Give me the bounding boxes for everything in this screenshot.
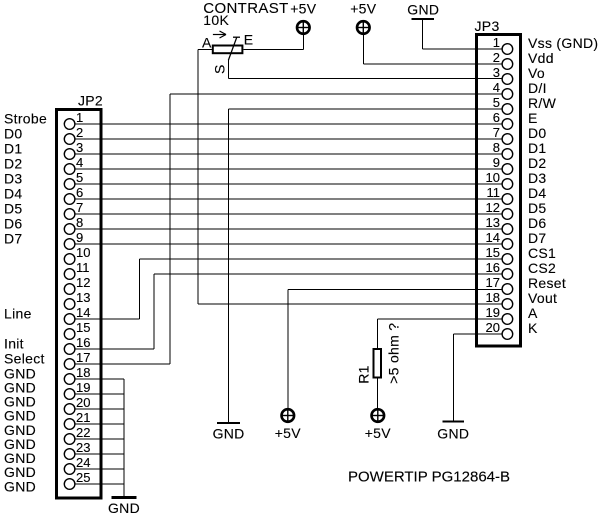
svg-text:15: 15 xyxy=(486,245,500,260)
svg-text:CS2: CS2 xyxy=(528,260,556,276)
svg-text:A: A xyxy=(528,305,538,321)
svg-text:24: 24 xyxy=(76,455,90,470)
wire R/W ground drop xyxy=(228,109,230,422)
wire D5 JP2 pin7 to JP3 pin12 xyxy=(75,213,501,215)
JP3 pin 17 circle xyxy=(502,284,513,295)
wire A to JP3 pin19 xyxy=(378,318,502,320)
svg-text:Init: Init xyxy=(4,336,24,352)
svg-text:GND: GND xyxy=(407,2,439,18)
JP2 pin 9 circle xyxy=(64,239,75,250)
svg-text:Reset: Reset xyxy=(528,275,566,291)
wire GND stub JP2 pin25 xyxy=(75,483,124,485)
wire R1 bottom lead xyxy=(377,379,379,410)
+5V symbol top 2 (Vdd) xyxy=(357,21,370,34)
wire pot E terminal to +5V xyxy=(243,48,303,50)
JP3 pin 2 circle xyxy=(502,59,513,70)
JP2 pin 14 circle xyxy=(64,314,75,325)
svg-text:1: 1 xyxy=(76,110,83,125)
svg-text:23: 23 xyxy=(76,440,90,455)
wire GND stub JP2 pin24 xyxy=(75,468,124,470)
JP2 pin 24 circle xyxy=(64,464,75,475)
wire R1 top lead xyxy=(377,319,379,348)
svg-text:2: 2 xyxy=(76,125,83,140)
svg-text:25: 25 xyxy=(76,470,90,485)
svg-text:JP3: JP3 xyxy=(475,18,500,34)
JP3 pin 8 circle xyxy=(502,149,513,160)
JP3 pin 6 circle xyxy=(502,119,513,130)
svg-text:D6: D6 xyxy=(528,215,547,231)
wire Init stub from JP2 pin16 xyxy=(75,348,154,350)
svg-text:20: 20 xyxy=(486,320,500,335)
JP2 pin 13 circle xyxy=(64,299,75,310)
svg-text:17: 17 xyxy=(486,275,500,290)
wire D6 JP2 pin8 to JP3 pin13 xyxy=(75,228,501,230)
wire D/I to JP3 pin4 xyxy=(170,93,502,95)
svg-text:21: 21 xyxy=(76,410,90,425)
svg-text:+5V: +5V xyxy=(275,425,302,441)
svg-text:22: 22 xyxy=(76,425,90,440)
wire JP2 ground bus down to GND symbol xyxy=(123,379,125,498)
JP2 pin 20 circle xyxy=(64,404,75,415)
wire GND stub JP2 pin18 xyxy=(75,378,124,380)
JP2 pin 12 circle xyxy=(64,284,75,295)
svg-text:+5V: +5V xyxy=(365,425,392,441)
GND symbol bottom left (R/W) xyxy=(217,422,240,424)
JP3 pin 15 circle xyxy=(502,254,513,265)
JP2 pin 8 circle xyxy=(64,224,75,235)
svg-text:Line: Line xyxy=(4,306,32,322)
svg-text:D2: D2 xyxy=(528,155,547,171)
svg-text:14: 14 xyxy=(486,230,500,245)
JP2 pin 18 circle xyxy=(64,374,75,385)
wire R/W to JP3 pin5 xyxy=(229,108,502,110)
wire pot A terminal stub xyxy=(198,48,212,50)
wire GND stub JP2 pin23 xyxy=(75,453,124,455)
svg-text:6: 6 xyxy=(493,110,500,125)
svg-text:15: 15 xyxy=(76,320,90,335)
wire Reset to JP3 pin17 xyxy=(288,289,502,291)
svg-text:4: 4 xyxy=(493,80,500,95)
svg-text:S: S xyxy=(211,64,227,74)
svg-text:Vdd: Vdd xyxy=(528,50,554,66)
JP3 pin 5 circle xyxy=(502,104,513,115)
wire +5V top-2 drop xyxy=(362,34,364,64)
GND symbol bottom right (K) xyxy=(443,420,465,422)
svg-text:R1: R1 xyxy=(355,365,371,384)
svg-text:D1: D1 xyxy=(4,141,23,157)
JP2 pin 2 circle xyxy=(64,134,75,145)
svg-text:19: 19 xyxy=(486,305,500,320)
JP3 pin 18 circle xyxy=(502,299,513,310)
JP2 pin 5 circle xyxy=(64,179,75,190)
svg-text:D3: D3 xyxy=(4,171,23,187)
JP3 pin 3 circle xyxy=(502,74,513,85)
svg-text:POWERTIP PG12864-B: POWERTIP PG12864-B xyxy=(348,469,510,486)
svg-text:3: 3 xyxy=(76,140,83,155)
wire CS1 to JP3 pin15 xyxy=(140,258,502,260)
JP3 pin 7 circle xyxy=(502,134,513,145)
wire Line riser to CS1 level xyxy=(139,259,141,319)
svg-text:7: 7 xyxy=(76,200,83,215)
wire K drop to GND xyxy=(452,334,454,422)
svg-text:3: 3 xyxy=(493,65,500,80)
JP2 pin 17 circle xyxy=(64,359,75,370)
wire D2 JP2 pin4 to JP3 pin9 xyxy=(75,168,501,170)
svg-text:D0: D0 xyxy=(4,126,23,142)
svg-text:D5: D5 xyxy=(4,201,23,217)
svg-text:JP2: JP2 xyxy=(78,93,103,109)
JP2 pin 3 circle xyxy=(64,149,75,160)
JP2 pin 1 circle xyxy=(64,119,75,130)
JP3 pin 12 circle xyxy=(502,209,513,220)
wire Vout to JP3 pin18 xyxy=(198,303,502,305)
svg-text:CS1: CS1 xyxy=(528,245,556,261)
svg-text:R/W: R/W xyxy=(528,95,557,111)
svg-text:D0: D0 xyxy=(528,125,547,141)
svg-text:16: 16 xyxy=(76,335,90,350)
svg-text:Vo: Vo xyxy=(528,65,545,81)
wire Vo to JP3 pin3 xyxy=(229,78,502,80)
svg-text:GND: GND xyxy=(108,500,140,516)
svg-text:10: 10 xyxy=(486,170,500,185)
JP2 pin 10 circle xyxy=(64,254,75,265)
wire Line stub from JP2 pin14 xyxy=(75,318,139,320)
wire pot wiper S drop xyxy=(228,60,230,79)
wire D1 JP2 pin3 to JP3 pin8 xyxy=(75,153,501,155)
svg-text:13: 13 xyxy=(76,290,90,305)
svg-text:17: 17 xyxy=(76,350,90,365)
svg-text:A: A xyxy=(202,35,212,51)
svg-text:D/I: D/I xyxy=(528,80,547,96)
wire D0 JP2 pin2 to JP3 pin7 xyxy=(75,138,501,140)
wire Vss to JP3 pin1 xyxy=(423,48,502,50)
svg-text:D6: D6 xyxy=(4,216,23,232)
svg-text:16: 16 xyxy=(486,260,500,275)
JP3 pin 19 circle xyxy=(502,314,513,325)
GND symbol JP2 ground bus xyxy=(112,496,137,499)
JP3 pin 16 circle xyxy=(502,269,513,280)
svg-text:18: 18 xyxy=(486,290,500,305)
wire D4 JP2 pin6 to JP3 pin11 xyxy=(75,198,501,200)
svg-text:Select: Select xyxy=(4,351,45,367)
potentiometer wiper diagonal xyxy=(228,37,240,60)
svg-text:+5V: +5V xyxy=(350,1,377,17)
svg-text:5: 5 xyxy=(76,170,83,185)
wire K stub from JP3 pin20 xyxy=(453,333,501,335)
svg-text:Vss (GND): Vss (GND) xyxy=(528,35,598,51)
svg-text:D7: D7 xyxy=(528,230,547,246)
svg-text:9: 9 xyxy=(493,155,500,170)
JP2 pin 4 circle xyxy=(64,164,75,175)
JP2 pin 15 circle xyxy=(64,329,75,340)
JP2 pin 23 circle xyxy=(64,449,75,460)
svg-text:5: 5 xyxy=(493,95,500,110)
svg-text:D3: D3 xyxy=(528,170,547,186)
svg-text:D5: D5 xyxy=(528,200,547,216)
svg-text:D7: D7 xyxy=(4,231,23,247)
wire D7 JP2 pin9 to JP3 pin14 xyxy=(75,243,501,245)
wire GND stub JP2 pin20 xyxy=(75,408,124,410)
resistor R1 body xyxy=(374,349,382,378)
svg-text:18: 18 xyxy=(76,365,90,380)
JP3 pin 14 circle xyxy=(502,239,513,250)
wire Init riser to CS2 level xyxy=(153,274,155,349)
svg-text:9: 9 xyxy=(76,230,83,245)
svg-text:8: 8 xyxy=(493,140,500,155)
svg-text:D2: D2 xyxy=(4,156,23,172)
svg-text:8: 8 xyxy=(76,215,83,230)
wire top GND drop xyxy=(422,20,424,49)
svg-text:20: 20 xyxy=(76,395,90,410)
+5V symbol bottom 1 (Reset) xyxy=(282,409,295,422)
JP3 pin 20 circle xyxy=(502,329,513,340)
wire Select stub from JP2 pin17 xyxy=(75,363,170,365)
connector JP3 box xyxy=(477,35,521,347)
GND symbol top (Vss) : text above bar xyxy=(411,18,434,20)
wire GND stub JP2 pin21 xyxy=(75,423,124,425)
JP2 pin 25 circle xyxy=(64,479,75,490)
svg-text:10K: 10K xyxy=(203,12,229,28)
JP2 pin 6 circle xyxy=(64,194,75,205)
svg-text:4: 4 xyxy=(76,155,83,170)
svg-text:11: 11 xyxy=(76,260,90,275)
svg-text:6: 6 xyxy=(76,185,83,200)
svg-text:E: E xyxy=(244,31,254,47)
JP2 pin 21 circle xyxy=(64,419,75,430)
svg-text:14: 14 xyxy=(76,305,90,320)
wire CS2 to JP3 pin16 xyxy=(154,273,502,275)
wire Strobe to JP3 pin6 E xyxy=(75,123,501,125)
svg-text:Vout: Vout xyxy=(528,290,557,306)
svg-text:GND: GND xyxy=(437,426,469,442)
JP2 pin 22 circle xyxy=(64,434,75,445)
JP3 pin 1 circle xyxy=(502,44,513,55)
wire Reset +5V riser xyxy=(287,290,289,410)
potentiometer adjust arrow xyxy=(213,31,226,38)
JP3 pin 10 circle xyxy=(502,179,513,190)
potentiometer body 10K xyxy=(213,46,243,54)
svg-text:E: E xyxy=(528,110,538,126)
+5V symbol bottom 2 (backlight) xyxy=(372,409,385,422)
svg-text:K: K xyxy=(528,320,538,336)
JP3 pin 9 circle xyxy=(502,164,513,175)
JP2 pin 11 circle xyxy=(64,269,75,280)
svg-text:7: 7 xyxy=(493,125,500,140)
svg-text:GND: GND xyxy=(4,478,36,494)
svg-text:D1: D1 xyxy=(528,140,547,156)
wire pot A riser down to Vout level xyxy=(197,49,199,304)
JP3 pin 13 circle xyxy=(502,224,513,235)
connector JP2 box xyxy=(57,110,102,499)
svg-text:12: 12 xyxy=(486,200,500,215)
wire D3 JP2 pin5 to JP3 pin10 xyxy=(75,183,501,185)
svg-text:+5V: +5V xyxy=(290,1,317,17)
svg-text:GND: GND xyxy=(213,426,245,442)
svg-text:>5 ohm ?: >5 ohm ? xyxy=(385,323,401,384)
JP3 pin 11 circle xyxy=(502,194,513,205)
JP2 pin 7 circle xyxy=(64,209,75,220)
svg-text:10: 10 xyxy=(76,245,90,260)
svg-text:2: 2 xyxy=(493,50,500,65)
+5V symbol top 1 (contrast) xyxy=(297,21,310,34)
svg-text:Strobe: Strobe xyxy=(4,111,47,127)
JP3 pin 4 circle xyxy=(502,89,513,100)
wire GND stub JP2 pin19 xyxy=(75,393,124,395)
wire +5V top-1 drop xyxy=(302,34,304,49)
JP2 pin 19 circle xyxy=(64,389,75,400)
svg-text:D4: D4 xyxy=(528,185,547,201)
wire Select riser to D/I level xyxy=(169,94,171,364)
svg-text:1: 1 xyxy=(493,35,500,50)
svg-text:19: 19 xyxy=(76,380,90,395)
svg-text:11: 11 xyxy=(487,185,501,200)
wire GND stub JP2 pin22 xyxy=(75,438,124,440)
JP2 pin 16 circle xyxy=(64,344,75,355)
svg-text:D4: D4 xyxy=(4,186,23,202)
svg-text:12: 12 xyxy=(76,275,90,290)
svg-text:13: 13 xyxy=(486,215,500,230)
wire Vdd to JP3 pin2 xyxy=(363,63,501,65)
